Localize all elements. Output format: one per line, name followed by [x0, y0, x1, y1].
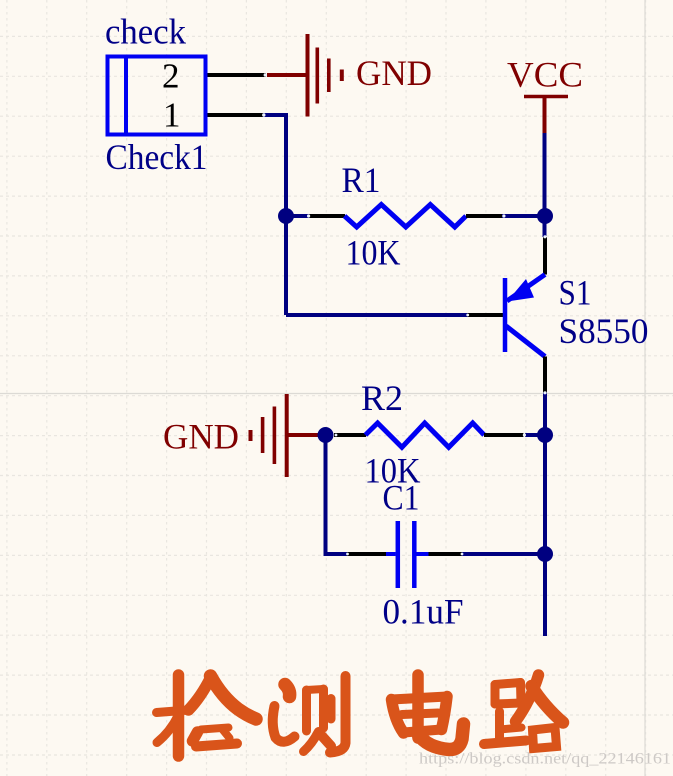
transistor base pin	[468, 313, 505, 317]
pin 2 wire	[208, 73, 267, 77]
transistor collector pin	[543, 357, 547, 393]
pin 1 wire	[208, 113, 264, 117]
svg-text:10K: 10K	[346, 233, 401, 273]
resistor R2 left pin	[334, 433, 366, 437]
svg-text:Check1: Check1	[106, 137, 208, 177]
capacitor C1 right pin	[429, 552, 463, 556]
svg-text:R1: R1	[342, 160, 381, 200]
pin end markers	[262, 73, 547, 555]
svg-text:check: check	[105, 12, 186, 52]
ground symbol top (power port GND)	[267, 34, 342, 117]
transistor emitter pin	[543, 237, 547, 275]
title character jian	[157, 675, 257, 756]
svg-text:1: 1	[163, 96, 181, 135]
svg-text:GND: GND	[356, 53, 432, 93]
wire R1 left stub	[286, 214, 310, 218]
wire node D to node E to tail	[543, 435, 547, 636]
title character lu	[484, 675, 563, 749]
wire R1 right stub	[502, 214, 545, 218]
wire pin1 to node A	[263, 115, 286, 315]
svg-text:0.1uF: 0.1uF	[383, 592, 464, 632]
capacitor C1 left pin	[347, 552, 386, 556]
connector Check1 body	[108, 57, 206, 135]
transistor Q1 S8550	[505, 275, 545, 357]
wire node C down to C1 row	[326, 435, 348, 554]
ground symbol bottom (power port GND)	[251, 394, 320, 477]
wire base row	[286, 313, 468, 317]
title character dian	[392, 675, 464, 750]
resistor R2 zigzag	[365, 423, 484, 447]
svg-text:VCC: VCC	[507, 55, 583, 95]
svg-text:S1: S1	[559, 273, 592, 313]
wire C1 to node E	[462, 552, 545, 556]
svg-text:https://blog.csdn.net/qq_22146: https://blog.csdn.net/qq_22146161	[419, 751, 671, 768]
svg-text:2: 2	[162, 57, 180, 96]
capacitor C1	[386, 521, 429, 588]
svg-text:S8550: S8550	[559, 311, 649, 351]
wire VCC to emitter	[543, 133, 547, 237]
node E junction	[537, 546, 553, 562]
resistor R1 left pin	[309, 214, 345, 218]
resistor R1 right pin	[466, 214, 502, 218]
wire R2 right stub	[525, 433, 545, 437]
svg-text:C1: C1	[383, 478, 420, 518]
node A junction	[278, 208, 294, 224]
resistor R1 zigzag	[345, 205, 467, 228]
svg-text:GND: GND	[163, 417, 239, 457]
power port VCC	[524, 97, 568, 134]
resistor R2 right pin	[484, 433, 524, 437]
svg-text:R2: R2	[361, 378, 403, 418]
title character ce	[273, 676, 346, 753]
wire collector to node C	[543, 393, 547, 436]
node D junction right	[537, 427, 553, 443]
node C junction left	[318, 427, 334, 443]
node B junction	[537, 208, 553, 224]
